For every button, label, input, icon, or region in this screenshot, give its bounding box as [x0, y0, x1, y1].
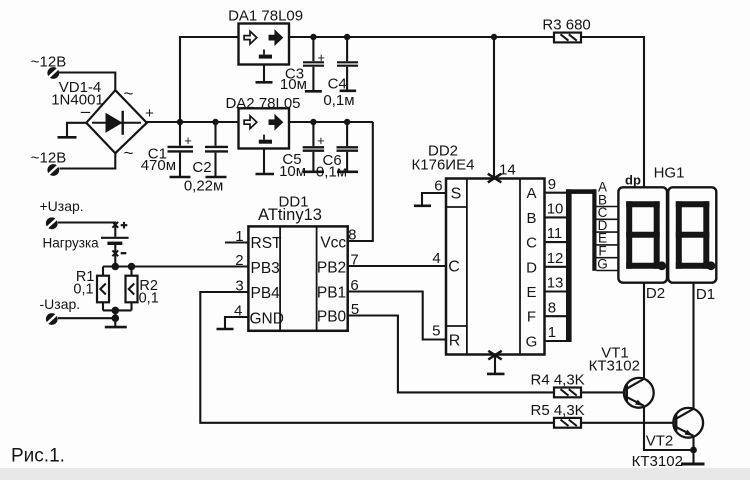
svg-text:C2: C2 — [192, 159, 211, 176]
svg-text:+Uзар.: +Uзар. — [40, 198, 84, 214]
svg-text:GND: GND — [250, 310, 284, 327]
svg-text:+: + — [184, 133, 192, 148]
svg-text:ATtiny13: ATtiny13 — [258, 206, 322, 224]
svg-text:6: 6 — [350, 277, 358, 294]
svg-text:B: B — [526, 210, 536, 227]
svg-text:9: 9 — [548, 176, 556, 193]
svg-text:14: 14 — [499, 161, 516, 178]
svg-text:Рис.1.: Рис.1. — [11, 446, 65, 467]
svg-text:6: 6 — [434, 177, 442, 194]
svg-text:0,1: 0,1 — [139, 291, 159, 307]
svg-text:C4: C4 — [328, 76, 347, 93]
svg-text:RST: RST — [251, 235, 283, 252]
svg-text:R4 4,3K: R4 4,3K — [530, 372, 584, 389]
svg-text:8: 8 — [348, 226, 356, 243]
svg-text:DA1 78L09: DA1 78L09 — [228, 8, 303, 25]
svg-text:5: 5 — [432, 323, 440, 340]
svg-text:3: 3 — [235, 277, 243, 294]
svg-text:+: + — [317, 133, 325, 148]
svg-text:К176ИЕ4: К176ИЕ4 — [412, 157, 475, 174]
svg-text:0,1м: 0,1м — [323, 92, 354, 109]
svg-text:~: ~ — [124, 84, 134, 103]
svg-text:D2: D2 — [646, 285, 665, 302]
svg-text:5: 5 — [351, 301, 359, 318]
svg-text:13: 13 — [547, 275, 564, 292]
svg-text:~12В: ~12В — [31, 149, 66, 166]
svg-text:~: ~ — [124, 144, 134, 163]
svg-text:-Uзар.: -Uзар. — [40, 296, 81, 312]
svg-text:PB2: PB2 — [317, 260, 346, 277]
svg-text:PB3: PB3 — [251, 260, 280, 277]
svg-text:D: D — [526, 259, 537, 276]
svg-text:DA2 78L05: DA2 78L05 — [225, 95, 300, 112]
svg-text:R5 4,3K: R5 4,3K — [530, 402, 584, 419]
svg-text:8: 8 — [548, 299, 556, 316]
svg-text:VT2: VT2 — [646, 432, 674, 449]
svg-text:S: S — [451, 186, 462, 203]
svg-text:10: 10 — [547, 201, 564, 218]
svg-text:1N4001: 1N4001 — [51, 92, 104, 109]
svg-text:dp: dp — [625, 172, 641, 187]
svg-text:12: 12 — [547, 250, 564, 267]
svg-text:0,1м: 0,1м — [316, 163, 347, 180]
svg-text:PB1: PB1 — [317, 285, 346, 302]
svg-text:7: 7 — [350, 251, 358, 268]
svg-text:2: 2 — [235, 252, 243, 269]
svg-text:11: 11 — [547, 225, 563, 242]
svg-text:Нагрузка: Нагрузка — [43, 235, 100, 250]
svg-text:C: C — [448, 259, 460, 276]
svg-text:G: G — [597, 256, 608, 271]
svg-text:1: 1 — [235, 228, 243, 245]
svg-text:–: – — [81, 102, 91, 121]
svg-text:КТ3102: КТ3102 — [589, 357, 640, 374]
svg-text:~12В: ~12В — [31, 54, 66, 71]
svg-text:D1: D1 — [696, 286, 715, 303]
svg-text:+: + — [145, 105, 154, 122]
svg-text:470м: 470м — [141, 157, 176, 174]
svg-text:1: 1 — [548, 324, 556, 341]
svg-text:4: 4 — [234, 302, 242, 319]
svg-text:10м: 10м — [280, 76, 307, 93]
svg-text:R3 680: R3 680 — [542, 17, 590, 34]
svg-text:PB0: PB0 — [317, 308, 347, 325]
svg-text:A: A — [526, 185, 536, 202]
svg-text:G: G — [526, 333, 538, 350]
svg-text:Vcc: Vcc — [320, 235, 346, 252]
svg-text:10м: 10м — [279, 163, 306, 180]
svg-text:КТ3102: КТ3102 — [632, 453, 683, 470]
svg-text:E: E — [526, 284, 536, 301]
svg-text:HG1: HG1 — [654, 164, 685, 181]
svg-text:C: C — [526, 235, 537, 252]
svg-text:R: R — [449, 333, 461, 350]
svg-text:PB4: PB4 — [251, 285, 281, 302]
svg-text:+: + — [317, 50, 325, 65]
svg-text:0,22м: 0,22м — [184, 178, 224, 195]
svg-text:4: 4 — [432, 250, 440, 267]
svg-text:F: F — [527, 309, 536, 326]
